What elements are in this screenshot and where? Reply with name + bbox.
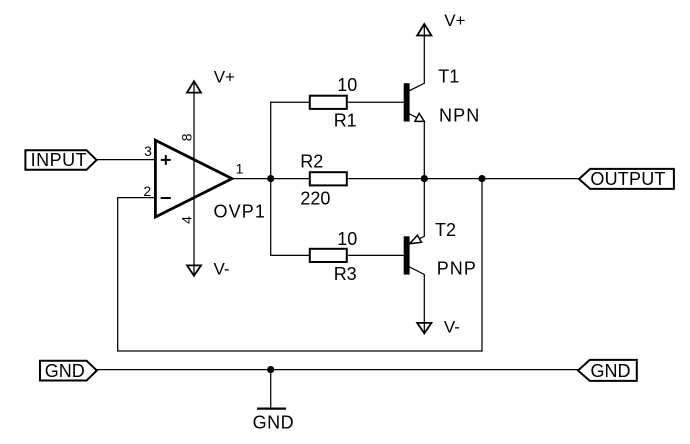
svg-text:NPN: NPN (439, 106, 480, 126)
svg-text:T2: T2 (435, 220, 456, 240)
svg-text:R1: R1 (334, 111, 357, 131)
svg-text:GND: GND (45, 361, 85, 381)
svg-text:3: 3 (144, 143, 152, 159)
svg-text:10: 10 (337, 75, 357, 95)
svg-text:2: 2 (143, 183, 151, 199)
svg-text:OUTPUT: OUTPUT (590, 169, 665, 189)
svg-text:V+: V+ (214, 68, 235, 87)
svg-text:10: 10 (337, 229, 357, 249)
svg-text:R2: R2 (300, 151, 323, 171)
svg-text:T1: T1 (438, 67, 459, 87)
svg-text:GND: GND (591, 361, 631, 381)
svg-text:1: 1 (236, 161, 244, 177)
svg-text:GND: GND (253, 413, 295, 433)
svg-text:8: 8 (179, 133, 195, 141)
svg-text:INPUT: INPUT (31, 150, 88, 170)
svg-text:V-: V- (444, 317, 460, 336)
svg-text:4: 4 (179, 216, 195, 224)
svg-text:R3: R3 (334, 264, 357, 284)
svg-text:220: 220 (300, 188, 330, 208)
svg-text:V+: V+ (444, 11, 465, 30)
svg-text:PNP: PNP (437, 259, 477, 279)
svg-text:OVP1: OVP1 (214, 201, 266, 221)
svg-text:V-: V- (214, 260, 230, 279)
